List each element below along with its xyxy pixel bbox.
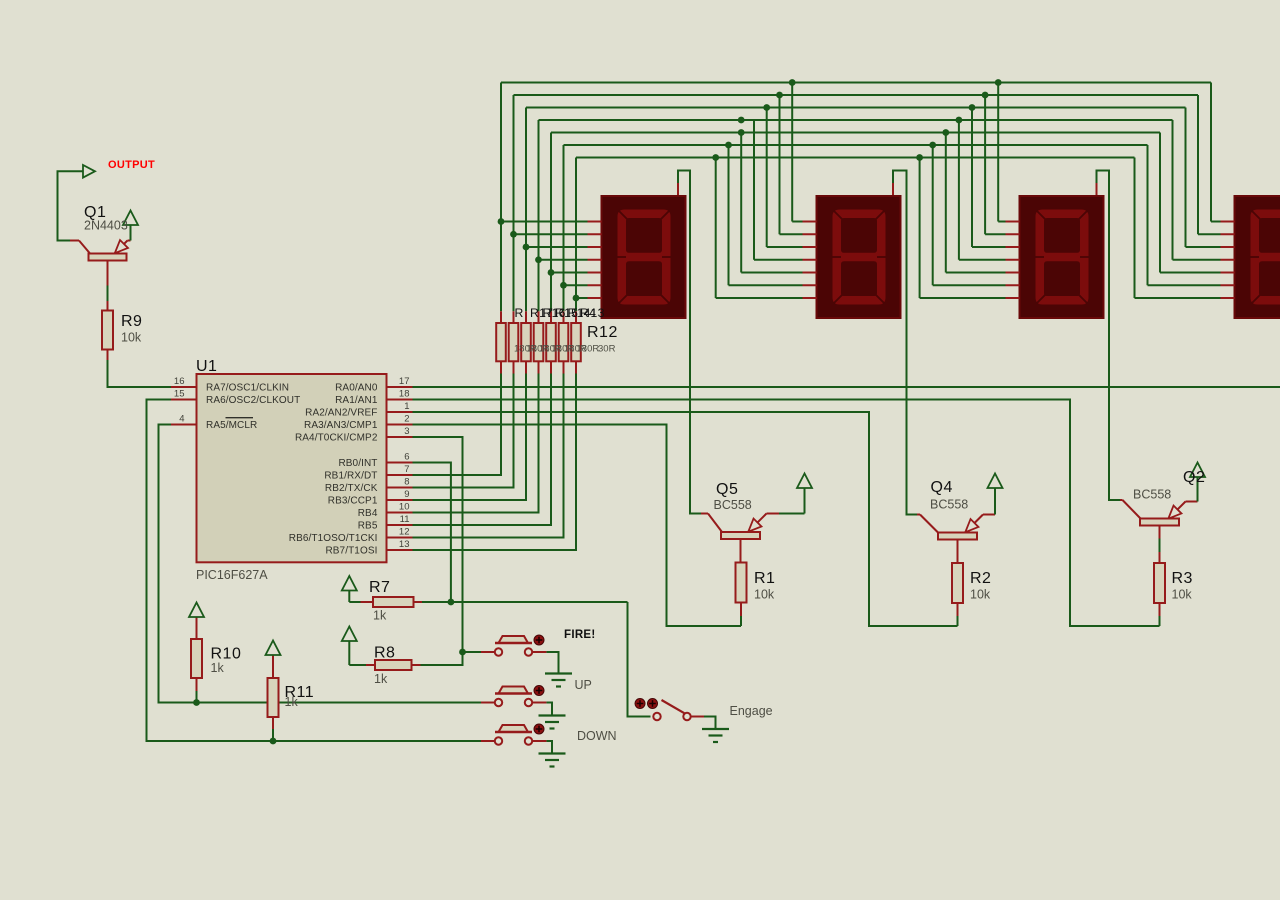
svg-text:7: 7: [404, 464, 409, 475]
svg-text:1k: 1k: [285, 695, 299, 709]
svg-text:BC558: BC558: [714, 498, 752, 512]
svg-text:RA5/MCLR: RA5/MCLR: [206, 420, 257, 431]
svg-text:10k: 10k: [1172, 588, 1193, 602]
svg-text:RA2/AN2/VREF: RA2/AN2/VREF: [305, 408, 377, 419]
svg-text:Engage: Engage: [730, 704, 773, 718]
svg-text:RA1/AN1: RA1/AN1: [335, 395, 378, 406]
svg-text:R12: R12: [587, 324, 618, 341]
svg-text:RB1/RX/DT: RB1/RX/DT: [324, 471, 377, 482]
svg-text:180R: 180R: [577, 344, 600, 355]
svg-text:RA7/OSC1/CLKIN: RA7/OSC1/CLKIN: [206, 383, 289, 394]
svg-text:UP: UP: [575, 678, 592, 692]
svg-text:6: 6: [404, 452, 409, 463]
svg-text:8: 8: [404, 477, 409, 488]
svg-text:RA6/OSC2/CLKOUT: RA6/OSC2/CLKOUT: [206, 395, 300, 406]
svg-text:FIRE!: FIRE!: [564, 629, 596, 641]
svg-text:Q4: Q4: [931, 479, 953, 496]
svg-text:OUTPUT: OUTPUT: [108, 159, 155, 171]
svg-text:R9: R9: [121, 313, 142, 330]
svg-text:PIC16F627A: PIC16F627A: [196, 568, 268, 582]
svg-text:2: 2: [404, 414, 409, 425]
svg-text:BC558: BC558: [930, 498, 968, 512]
svg-text:R8: R8: [374, 645, 395, 662]
svg-text:10k: 10k: [970, 588, 991, 602]
svg-text:Q5: Q5: [716, 481, 738, 498]
svg-text:13: 13: [399, 539, 410, 550]
svg-text:R1: R1: [754, 570, 775, 587]
svg-text:18: 18: [399, 389, 410, 400]
svg-text:30R: 30R: [598, 344, 616, 355]
svg-text:17: 17: [399, 376, 410, 387]
svg-text:RB0/INT: RB0/INT: [338, 458, 377, 469]
svg-text:1k: 1k: [374, 672, 388, 686]
svg-text:RB4: RB4: [358, 508, 378, 519]
svg-text:RA0/AN0: RA0/AN0: [335, 383, 378, 394]
svg-text:10k: 10k: [754, 588, 775, 602]
svg-text:R2: R2: [970, 570, 991, 587]
svg-text:10: 10: [399, 502, 410, 513]
svg-text:16: 16: [174, 376, 185, 387]
svg-text:Q2: Q2: [1183, 469, 1205, 486]
svg-text:4: 4: [179, 414, 184, 425]
svg-text:RB5: RB5: [358, 521, 378, 532]
svg-text:9: 9: [404, 489, 409, 500]
svg-text:RB7/T1OSI: RB7/T1OSI: [325, 546, 377, 557]
svg-text:RB3/CCP1: RB3/CCP1: [328, 496, 378, 507]
svg-text:RA3/AN3/CMP1: RA3/AN3/CMP1: [304, 420, 378, 431]
svg-text:15: 15: [174, 389, 185, 400]
svg-text:1: 1: [404, 401, 409, 412]
svg-text:RA4/T0CKI/CMP2: RA4/T0CKI/CMP2: [295, 433, 378, 444]
svg-text:10k: 10k: [121, 331, 142, 345]
svg-text:DOWN: DOWN: [577, 729, 617, 743]
svg-text:R3: R3: [1172, 570, 1193, 587]
svg-text:3: 3: [404, 426, 409, 437]
svg-text:2N4403: 2N4403: [84, 219, 128, 233]
svg-text:R7: R7: [369, 579, 390, 596]
svg-text:12: 12: [399, 527, 410, 538]
svg-text:13: 13: [591, 306, 605, 320]
svg-text:1k: 1k: [211, 661, 225, 675]
svg-text:RB6/T1OSO/T1CKI: RB6/T1OSO/T1CKI: [289, 533, 378, 544]
svg-text:1k: 1k: [373, 609, 387, 623]
svg-text:11: 11: [400, 514, 410, 525]
svg-text:R10: R10: [211, 646, 242, 663]
svg-text:U1: U1: [196, 358, 217, 375]
svg-text:BC558: BC558: [1133, 488, 1171, 502]
svg-text:RB2/TX/CK: RB2/TX/CK: [325, 483, 378, 494]
svg-text:R: R: [515, 306, 524, 320]
